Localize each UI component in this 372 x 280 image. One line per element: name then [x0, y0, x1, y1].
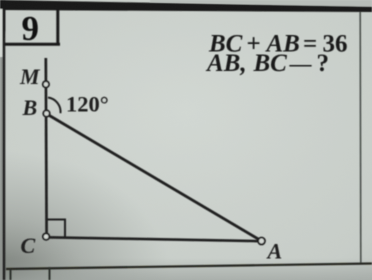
top border bar of table cell [0, 0, 372, 12]
given text line 1: BC + AB = 36 [208, 30, 348, 57]
point C [43, 233, 49, 239]
hypotenuse BA [46, 114, 262, 242]
shading above top bar (right half) [150, 0, 372, 7]
base CA [47, 237, 262, 241]
point A [258, 238, 265, 245]
left border bar of table cell [2, 0, 5, 280]
next-row cell border (left short vertical) [10, 269, 12, 280]
right border line of table cell [359, 12, 362, 264]
paper edge highlight left of bar [0, 9, 2, 57]
angle arc for 120 degrees at B [48, 98, 61, 114]
right angle mark at C [46, 220, 65, 238]
point B [43, 110, 49, 116]
next-row cell border (second short vertical) [49, 267, 51, 280]
bottom border line of table cell [6, 264, 372, 270]
bottom strip shading below table line [0, 258, 372, 280]
paper edge gray strip left of bar [0, 57, 2, 280]
given text line 2: AB, BC - ? [205, 50, 329, 77]
line MC (vertical through M, B down to C) [44, 58, 47, 237]
point M [43, 81, 49, 87]
left border bar thick top section [0, 0, 5, 58]
problem number box [5, 9, 60, 46]
